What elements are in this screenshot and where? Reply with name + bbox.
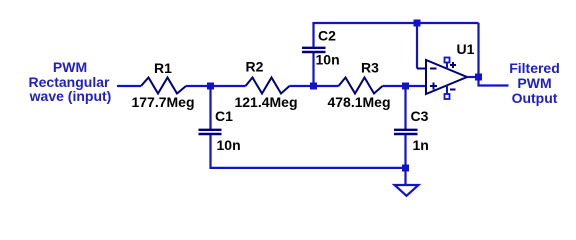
resistor R2 — [246, 78, 290, 94]
power terminal square V- — [445, 94, 450, 99]
resistor R3 — [339, 78, 383, 94]
wire feedback vertical right — [477, 23, 479, 77]
plus sign V+ — [450, 64, 456, 66]
svg-text:R2: R2 — [246, 59, 264, 75]
svg-text:R3: R3 — [361, 60, 379, 76]
node junction N003 (R3/C3/U1+) — [402, 83, 409, 90]
inverting input pin stub — [417, 68, 426, 70]
wire ground stub — [404, 168, 406, 185]
power pin V- stub — [446, 85, 448, 94]
svg-text:C2: C2 — [318, 28, 336, 44]
capacitor C2 — [302, 48, 326, 52]
wire C1 top stub — [209, 86, 211, 129]
wire input to R1 — [117, 85, 141, 87]
svg-text:177.7Meg: 177.7Meg — [131, 94, 194, 110]
capacitor C1 — [199, 130, 222, 134]
power pin V+ stub — [446, 62, 448, 69]
node junction output — [475, 74, 482, 81]
svg-text:PWM: PWM — [53, 59, 87, 75]
svg-text:C1: C1 — [215, 108, 233, 124]
svg-text:10n: 10n — [316, 52, 340, 68]
svg-text:C3: C3 — [411, 108, 429, 124]
node junction ground tap — [402, 165, 409, 172]
node junction N002 (R2/R3/C2) — [310, 83, 317, 90]
resistor R1 — [141, 78, 186, 94]
plus sign non-inverting input — [430, 85, 437, 87]
node junction feedback tap — [414, 20, 421, 27]
wire R1 to R2 — [186, 85, 246, 87]
svg-text:478.1Meg: 478.1Meg — [327, 94, 390, 110]
svg-text:U1: U1 — [457, 41, 475, 57]
wire top feedback rail — [314, 23, 479, 24]
wire R3 to op-amp plus input — [383, 85, 427, 87]
ground symbol — [395, 185, 419, 196]
power terminal square V+ — [445, 58, 450, 63]
svg-text:PWM: PWM — [517, 75, 551, 91]
op-amp body triangle — [426, 60, 467, 94]
wire output to label — [479, 77, 509, 86]
wire op-amp output stub — [467, 76, 479, 78]
node junction N001 (R1/R2/C1) — [207, 83, 214, 90]
svg-text:10n: 10n — [217, 137, 241, 153]
svg-text:121.4Meg: 121.4Meg — [234, 94, 297, 110]
svg-text:wave (input): wave (input) — [29, 88, 112, 104]
op-amp U1 — [417, 60, 467, 94]
node Vout label "Filtered PWM Output" — [509, 60, 560, 106]
minus sign V- — [450, 89, 456, 91]
wire C1 bottom stub — [209, 135, 211, 170]
wire R2 to R3 — [290, 85, 339, 87]
minus sign inverting input — [430, 68, 437, 70]
svg-text:Filtered: Filtered — [509, 60, 560, 76]
node Vin label "PWM Rectangular wave (input)" — [29, 59, 112, 104]
svg-text:R1: R1 — [154, 60, 172, 76]
svg-text:1n: 1n — [413, 137, 429, 153]
capacitor C3 — [394, 130, 418, 134]
wire C3 bottom stub — [404, 135, 406, 169]
wire C3 top stub — [404, 86, 406, 129]
wire bottom ground rail — [211, 167, 406, 169]
wire C2 top stub — [312, 23, 314, 47]
wire C2 bottom stub — [312, 53, 314, 87]
svg-text:Output: Output — [512, 90, 558, 106]
wire feedback down to inverting input — [416, 23, 418, 69]
